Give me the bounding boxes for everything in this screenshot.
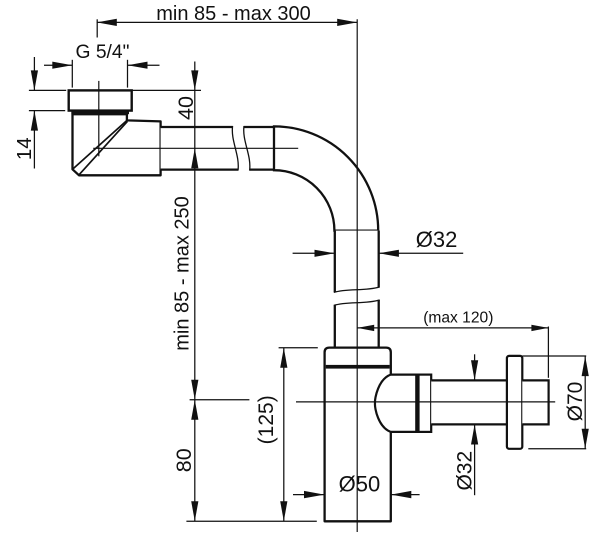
inlet nut G5/4 bbox=[69, 90, 132, 110]
centerline horizontal pipe axis bbox=[93, 147, 298, 149]
dimension diameter 70 wall flange bbox=[584, 356, 586, 449]
elbow mitre seam bbox=[73, 121, 127, 170]
svg-text:Ø32: Ø32 bbox=[416, 227, 458, 252]
horizontal pipe break bbox=[232, 126, 238, 171]
svg-text:min 85 - max 250: min 85 - max 250 bbox=[171, 196, 193, 351]
dimension diameter 50 bottle bbox=[293, 494, 324, 496]
dimension 80 bbox=[191, 400, 198, 420]
centerline outlet axis bbox=[296, 401, 555, 403]
svg-text:(max 120): (max 120) bbox=[423, 309, 493, 326]
svg-text:40: 40 bbox=[174, 96, 198, 120]
dimension 40 bbox=[194, 62, 196, 522]
horizontal pipe bbox=[161, 127, 274, 170]
centerline inlet axis bbox=[98, 81, 100, 156]
dimension min 85 - max 250 bbox=[191, 380, 198, 400]
elbow body bbox=[73, 114, 161, 175]
dimension diameter 32 outlet bbox=[474, 354, 476, 380]
vertical pipe break bbox=[334, 287, 380, 292]
svg-text:min 85 - max 300: min 85 - max 300 bbox=[156, 3, 311, 25]
svg-text:Ø70: Ø70 bbox=[564, 382, 587, 422]
wall pipe bbox=[522, 380, 548, 424]
dimension (125) bbox=[283, 348, 285, 521]
outlet nut bbox=[416, 375, 431, 432]
dimension (max 120) bbox=[357, 327, 548, 329]
inlet washer bbox=[71, 111, 129, 115]
svg-text:(125): (125) bbox=[255, 395, 278, 444]
vertical pipe joint bbox=[335, 230, 379, 232]
dimension diameter 32 pipe bbox=[293, 252, 335, 254]
wall flange bbox=[507, 356, 522, 449]
svg-text:14: 14 bbox=[13, 137, 36, 160]
dimension 14 bbox=[33, 57, 35, 90]
pipe bend joint bbox=[273, 127, 275, 170]
vertical pipe bbox=[335, 231, 379, 348]
centerline main vertical axis bbox=[356, 19, 358, 532]
outlet tube bbox=[431, 380, 507, 424]
svg-text:Ø32: Ø32 bbox=[453, 451, 476, 491]
bottle flange gasket bbox=[326, 365, 390, 369]
svg-text:G 5/4": G 5/4" bbox=[75, 42, 129, 63]
dimension min 85 - max 300 bbox=[96, 19, 98, 37]
pipe bend 90deg bbox=[274, 126, 378, 230]
dimension G 5/4&quot; bbox=[71, 60, 73, 88]
outlet dome bbox=[375, 375, 416, 432]
bottle body bbox=[325, 348, 391, 522]
svg-text:Ø50: Ø50 bbox=[339, 472, 381, 497]
svg-text:80: 80 bbox=[172, 448, 196, 472]
